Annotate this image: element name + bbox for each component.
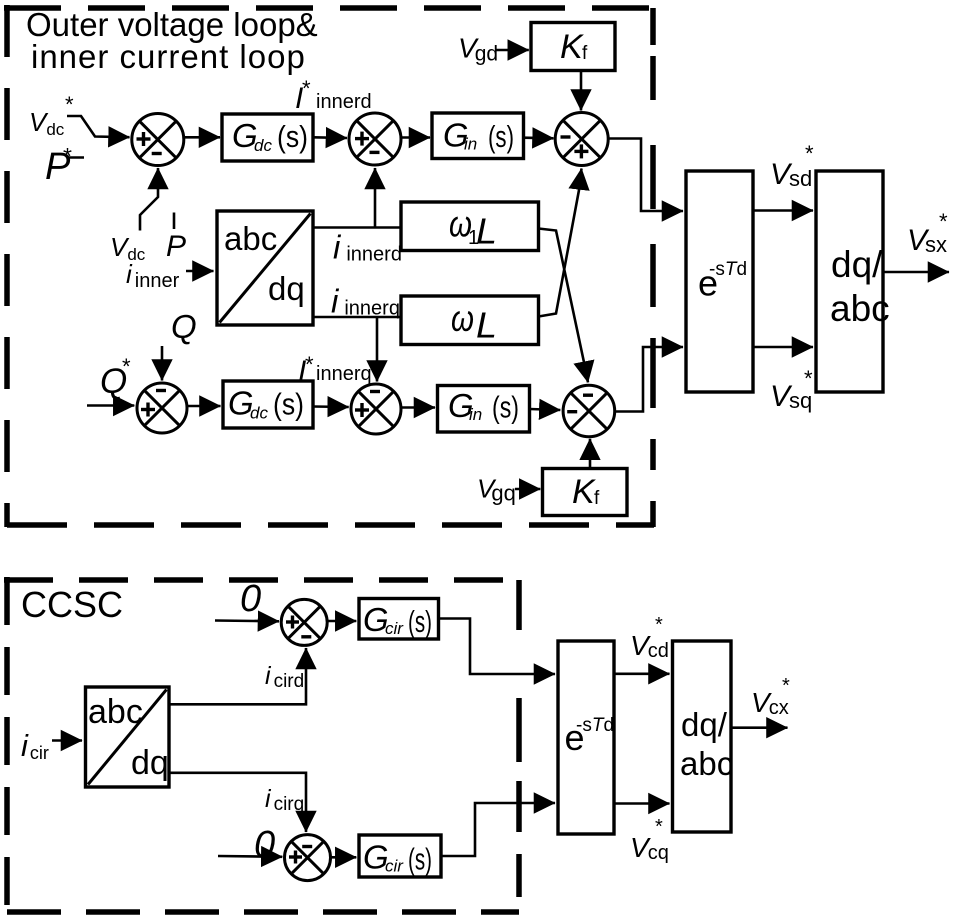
svg-text:f: f — [582, 43, 588, 64]
svg-text:(s): (s) — [277, 119, 308, 154]
wire S4 to Gdc2 — [187, 405, 221, 408]
svg-text:dq/: dq/ — [831, 244, 883, 285]
svg-text:*: * — [655, 816, 663, 838]
block abc/dq converter 1 — [217, 211, 313, 325]
sign - left in S3 — [561, 135, 571, 138]
summing junction S6 — [563, 385, 615, 437]
sign + left in S4 — [141, 403, 155, 417]
wire Gin2 to S6 — [530, 409, 561, 410]
svg-text:abc: abc — [830, 288, 890, 329]
label P feedback with tick — [166, 213, 186, 264]
wire dqabc2 output vcx — [731, 726, 788, 729]
wire e1 to dqabc1 top — [754, 209, 814, 212]
svg-text:dc: dc — [254, 136, 272, 155]
svg-text:(s): (s) — [408, 604, 432, 639]
wire branch up into S2 — [374, 168, 377, 228]
wire w1L diagonal down to S6 — [539, 229, 589, 383]
svg-text:*: * — [305, 352, 314, 377]
wire Gin1 to S3 — [524, 136, 554, 139]
CCSC dashed box — [4, 577, 519, 913]
sign - top in S6 — [583, 394, 593, 397]
label vsx* — [907, 209, 948, 257]
svg-text:in: in — [464, 135, 477, 154]
label vsd* — [770, 141, 814, 191]
wire S7 to Gcir1 — [327, 620, 356, 623]
svg-text:-sTd: -sTd — [576, 715, 614, 736]
block dq/abc 2 — [673, 641, 734, 832]
wire S8 to Gcir2 — [331, 856, 357, 859]
svg-text:(s): (s) — [488, 119, 514, 154]
svg-text:dq: dq — [131, 744, 169, 782]
svg-text:0: 0 — [254, 824, 275, 866]
svg-text:dc: dc — [250, 404, 268, 423]
wire vdc feedback switch up into S1 — [140, 168, 158, 231]
sign - bottom in S7 — [301, 635, 311, 638]
label I*innerq — [298, 352, 372, 388]
sign + bottom in S3 — [574, 144, 588, 158]
svg-text:in: in — [469, 405, 482, 424]
sign + left in S8 — [289, 851, 302, 864]
svg-text:ω: ω — [451, 298, 474, 339]
svg-text:inner current loop: inner current loop — [31, 38, 306, 75]
wire 0 into S7 — [215, 619, 279, 622]
block Gin2 — [438, 386, 530, 433]
sign + left in S7 — [286, 616, 299, 629]
wire Kf2 up to S6 — [589, 439, 592, 469]
svg-text:innerd: innerd — [316, 91, 372, 113]
block Kf1 — [531, 23, 615, 71]
wire e1 to dqabc1 bottom — [754, 346, 814, 349]
wire branch down into S5 — [376, 317, 379, 382]
label vdc* reference — [29, 92, 74, 139]
svg-text:(s): (s) — [273, 387, 304, 422]
block abc/dq converter 2 — [86, 687, 170, 787]
block dq/abc 1 — [816, 171, 890, 392]
svg-text:dq/: dq/ — [681, 706, 728, 743]
summing junction S1 — [132, 114, 184, 166]
svg-text:0: 0 — [240, 578, 261, 620]
svg-text:dq: dq — [268, 270, 305, 307]
svg-text:*: * — [804, 366, 813, 391]
label vcx* — [751, 675, 790, 719]
wire abc/dq q-output to wL — [313, 316, 401, 319]
block Kf2 — [543, 469, 628, 516]
sign - in S1 — [152, 152, 162, 155]
block Gcir1 — [359, 599, 439, 640]
svg-text:(s): (s) — [492, 390, 519, 425]
wire i inner into abc/dq — [186, 270, 214, 273]
svg-text:*: * — [63, 143, 72, 169]
block e-sTd 2 — [558, 641, 614, 834]
sign - top in S5 — [370, 390, 380, 393]
label Q* — [100, 354, 131, 401]
summing junction S8 — [285, 835, 331, 881]
block wL — [401, 296, 539, 346]
svg-text:*: * — [302, 76, 311, 101]
svg-text:L: L — [476, 211, 497, 252]
block Gdc1 — [222, 114, 313, 161]
wire S5 to Gin2 — [401, 406, 435, 409]
svg-text:f: f — [594, 488, 600, 509]
wire Gcir2 right, up, into e-sTd 2 — [441, 803, 555, 856]
svg-text:*: * — [939, 209, 948, 234]
block Gcir2 — [359, 835, 441, 877]
summing junction S5 — [351, 384, 401, 434]
wire Q* into S4 — [87, 404, 134, 407]
wire vgq to Kf2 — [515, 488, 540, 491]
wire Kf1 down to S3 — [580, 71, 583, 111]
label vsq* — [770, 366, 813, 413]
summing junction S7 — [281, 599, 327, 645]
block w1L — [401, 202, 539, 252]
wire e2 to dqabc2 bottom — [614, 802, 670, 805]
svg-text:-sTd: -sTd — [709, 259, 747, 280]
wire S3 right, down, into e-sTd — [608, 139, 683, 212]
wire wL diagonal up to S3 — [539, 169, 582, 317]
summing junction S3 — [555, 113, 608, 166]
wire Q down into S4 — [161, 346, 164, 381]
sign + in S1 — [137, 132, 151, 146]
block Gin1 — [432, 113, 524, 159]
wire abc/dq2 d-output up into S7 — [169, 648, 306, 704]
sign - left in S6 — [567, 410, 577, 413]
svg-text:abc: abc — [680, 745, 733, 782]
svg-text:Q: Q — [171, 308, 197, 345]
svg-text:*: * — [122, 354, 131, 379]
svg-text:abc: abc — [224, 220, 277, 257]
sign + in S2 — [355, 132, 369, 146]
wire vdc* switch into summing junction S1 — [67, 116, 130, 137]
svg-text:CCSC: CCSC — [21, 584, 123, 625]
wire S2 to Gin1 — [401, 136, 430, 139]
svg-text:(s): (s) — [408, 842, 432, 877]
summing junction S4 — [137, 383, 187, 433]
block Gdc2 — [223, 381, 313, 428]
wire e2 to dqabc2 top — [614, 672, 670, 675]
svg-text:K: K — [572, 473, 596, 511]
wire icir into abc/dq 2 — [52, 739, 82, 742]
label I*innerd — [295, 76, 372, 115]
wire 0 into S8 — [218, 855, 282, 858]
wire vgd to Kf1 — [496, 49, 529, 52]
svg-text:P: P — [166, 230, 186, 263]
svg-text:innerq: innerq — [316, 363, 372, 385]
wire dqabc1 output vsx — [884, 271, 950, 274]
sign - top in S4 — [156, 389, 166, 392]
svg-text:cir: cir — [385, 619, 404, 638]
wire abc/dq2 q-output down into S8 — [169, 773, 306, 832]
sign - top in S8 — [302, 845, 312, 848]
svg-text:abc: abc — [88, 693, 143, 731]
label vcd* — [630, 614, 669, 662]
svg-text:*: * — [655, 614, 663, 636]
wire S1 to Gdc1 — [184, 136, 220, 139]
wire Gdc2 to S5 — [313, 405, 349, 408]
label P* — [45, 143, 84, 188]
svg-text:*: * — [805, 141, 814, 166]
wire abc/dq d-output to w1L — [313, 226, 401, 229]
svg-text:*: * — [782, 675, 790, 697]
label vcq* — [630, 816, 669, 864]
svg-text:K: K — [560, 28, 584, 66]
wire S6 right, up, into e-sTd — [615, 347, 683, 412]
wire Gdc1 to S2 — [313, 136, 347, 139]
outer dashed box: outer voltage loop & inner current loop — [4, 5, 654, 527]
svg-text:cir: cir — [385, 857, 404, 876]
sign + left in S5 — [355, 403, 369, 417]
svg-text:L: L — [476, 305, 497, 346]
summing junction S2 — [349, 113, 401, 165]
svg-text:*: * — [65, 92, 74, 117]
sign - in S2 — [370, 151, 380, 154]
block e-sTd 1 — [686, 171, 753, 392]
wire Gcir1 right, down, into e-sTd 2 — [439, 619, 556, 675]
